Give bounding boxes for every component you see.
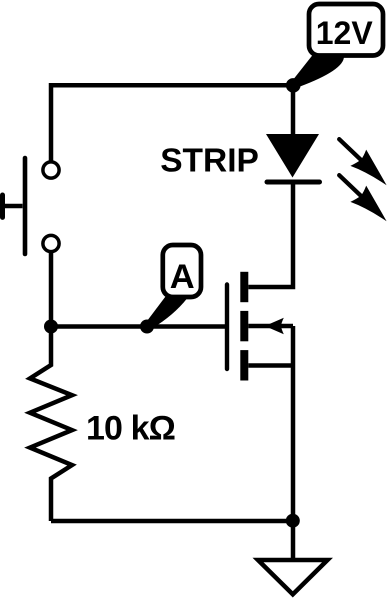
svg-text:A: A [170, 258, 195, 296]
svg-text:12V: 12V [316, 15, 374, 51]
svg-text:10 kΩ: 10 kΩ [86, 410, 175, 448]
svg-text:STRIP: STRIP [160, 143, 259, 180]
